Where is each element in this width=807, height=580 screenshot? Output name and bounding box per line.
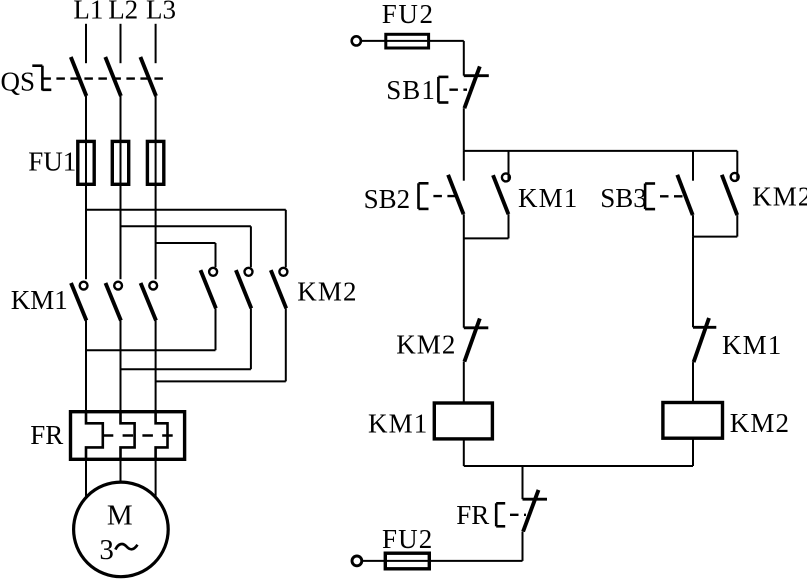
svg-text:FU2: FU2 [382,524,433,554]
svg-text:L2: L2 [108,0,138,25]
svg-text:L1: L1 [73,0,103,25]
svg-text:FR: FR [456,500,489,530]
svg-text:M: M [107,499,133,531]
svg-text:3: 3 [99,534,114,566]
svg-text:L3: L3 [146,0,176,25]
svg-text:FU1: FU1 [28,146,76,176]
svg-text:QS: QS [1,67,36,97]
svg-text:SB3: SB3 [600,183,647,213]
svg-text:KM1: KM1 [722,330,782,360]
svg-text:FU2: FU2 [382,0,435,29]
svg-text:KM2: KM2 [730,408,790,438]
svg-text:FR: FR [30,420,63,450]
svg-text:KM2: KM2 [396,330,456,360]
svg-text:KM1: KM1 [518,183,578,213]
svg-text:SB2: SB2 [364,184,411,214]
svg-text:KM1: KM1 [368,408,428,438]
svg-text:KM1: KM1 [11,285,68,315]
svg-text:SB1: SB1 [386,75,436,105]
svg-text:KM2: KM2 [752,181,807,211]
svg-text:KM2: KM2 [297,277,357,307]
